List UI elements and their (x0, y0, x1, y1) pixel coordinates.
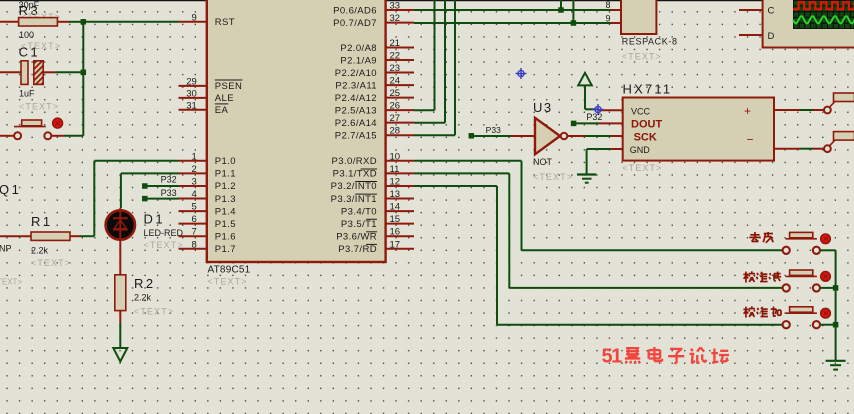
svg-text:TEXT>: TEXT> (0, 278, 22, 287)
svg-text:30: 30 (186, 88, 197, 99)
svg-text:GND: GND (630, 145, 651, 155)
svg-text:P1.5: P1.5 (215, 219, 236, 230)
svg-text:P2.2/A10: P2.2/A10 (335, 68, 377, 79)
svg-text:P32: P32 (586, 112, 602, 122)
svg-text:P33: P33 (486, 125, 501, 135)
svg-text:R2: R2 (134, 276, 156, 291)
svg-text:11: 11 (390, 164, 400, 175)
svg-text:5: 5 (192, 202, 197, 213)
svg-text:9: 9 (192, 12, 197, 23)
svg-text:R1: R1 (31, 214, 53, 229)
svg-text:17: 17 (390, 239, 401, 250)
svg-text:NP: NP (0, 244, 12, 254)
svg-text:P3.6/WR: P3.6/WR (336, 232, 377, 243)
svg-text:10: 10 (390, 151, 401, 162)
svg-text:DOUT: DOUT (631, 119, 662, 131)
svg-text:<TEXT>: <TEXT> (19, 102, 59, 112)
svg-text:P3.1/TXD: P3.1/TXD (333, 169, 377, 180)
svg-text:3: 3 (192, 176, 197, 187)
svg-text:U3: U3 (533, 100, 553, 115)
svg-text:P3.0/RXD: P3.0/RXD (332, 156, 377, 167)
svg-text:P1.3: P1.3 (215, 194, 236, 205)
svg-text:<TEXT>: <TEXT> (622, 52, 662, 62)
svg-text:100: 100 (19, 30, 34, 40)
svg-text:26: 26 (390, 101, 401, 112)
svg-text:NOT: NOT (533, 157, 553, 167)
svg-text:2.2k: 2.2k (31, 246, 49, 256)
svg-text:8: 8 (192, 239, 197, 250)
svg-text:33: 33 (390, 1, 401, 12)
svg-text:P1.4: P1.4 (215, 206, 236, 217)
svg-text:P33: P33 (161, 188, 177, 198)
svg-text:16: 16 (390, 227, 401, 238)
svg-text:P3.3/INT1: P3.3/INT1 (331, 194, 377, 205)
svg-text:D1: D1 (144, 212, 166, 227)
svg-text:<TEXT>: <TEXT> (533, 172, 573, 182)
svg-text:RST: RST (215, 17, 235, 28)
svg-text:P1.0: P1.0 (215, 156, 236, 167)
svg-text:AT89C51: AT89C51 (208, 264, 251, 275)
svg-text:P1.2: P1.2 (215, 181, 236, 192)
svg-text:2.2k: 2.2k (134, 293, 152, 303)
svg-text:4: 4 (192, 189, 197, 200)
svg-text:51: 51 (602, 346, 623, 368)
svg-text:P32: P32 (161, 175, 177, 185)
svg-text:25: 25 (390, 88, 401, 99)
svg-text:EA: EA (215, 105, 229, 116)
svg-text:C1: C1 (19, 45, 41, 60)
svg-text:9: 9 (605, 14, 610, 24)
svg-text:P0.6/AD6: P0.6/AD6 (333, 5, 377, 16)
svg-text:P2.4/A12: P2.4/A12 (335, 93, 377, 104)
svg-text:P3.7/RD: P3.7/RD (338, 244, 377, 255)
svg-text:8: 8 (605, 0, 610, 10)
svg-text:P1.7: P1.7 (215, 244, 236, 255)
svg-text:14: 14 (390, 202, 401, 213)
svg-text:ALE: ALE (215, 93, 234, 104)
svg-text:6: 6 (192, 214, 197, 225)
svg-text:P2.3/A11: P2.3/A11 (335, 80, 377, 91)
svg-text:−: − (747, 133, 754, 147)
svg-text:P3.5/T1: P3.5/T1 (341, 219, 377, 230)
svg-text:P0.7/AD7: P0.7/AD7 (333, 18, 377, 29)
svg-text:7: 7 (192, 227, 197, 238)
svg-text:PSEN: PSEN (215, 81, 242, 92)
svg-text:P2.1/A9: P2.1/A9 (340, 55, 377, 66)
svg-text:+: + (744, 104, 751, 118)
svg-text:P1.6: P1.6 (215, 232, 236, 243)
svg-text:<TEXT>: <TEXT> (208, 277, 248, 287)
svg-text:LED-RED: LED-RED (144, 228, 184, 238)
svg-text:12: 12 (390, 176, 401, 187)
svg-text:21: 21 (390, 38, 401, 49)
svg-text:2: 2 (192, 164, 197, 175)
svg-text:27: 27 (390, 113, 401, 124)
svg-text:VCC: VCC (631, 106, 651, 116)
svg-text:31: 31 (186, 100, 197, 111)
svg-text:Q1: Q1 (0, 182, 21, 197)
svg-text:32: 32 (390, 13, 401, 24)
svg-text:15: 15 (390, 214, 401, 225)
svg-text:P2.0/A8: P2.0/A8 (340, 43, 377, 54)
svg-text:29: 29 (186, 76, 197, 87)
svg-text:1: 1 (192, 151, 197, 162)
svg-text:P2.6/A14: P2.6/A14 (335, 118, 377, 129)
svg-text:D: D (768, 31, 775, 42)
svg-text:P2.7/A15: P2.7/A15 (335, 131, 377, 142)
svg-text:<TEXT>: <TEXT> (134, 307, 174, 317)
svg-text:P1.1: P1.1 (215, 169, 236, 180)
svg-text:1uF: 1uF (19, 89, 35, 99)
svg-text:RESPACK-8: RESPACK-8 (622, 37, 678, 47)
svg-text:22: 22 (390, 51, 401, 62)
svg-text:23: 23 (390, 63, 401, 74)
svg-text:HX711: HX711 (623, 82, 673, 97)
svg-text:24: 24 (390, 76, 401, 87)
svg-text:<TEXT>: <TEXT> (31, 258, 71, 268)
svg-text:<TEXT>: <TEXT> (622, 163, 662, 173)
svg-text:SCK: SCK (634, 132, 657, 144)
svg-text:13: 13 (390, 189, 401, 200)
svg-text:P3.4/T0: P3.4/T0 (341, 206, 377, 217)
svg-text:C: C (768, 6, 775, 17)
svg-text:P2.5/A13: P2.5/A13 (335, 105, 377, 116)
svg-text:P3.2/INT0: P3.2/INT0 (331, 181, 377, 192)
svg-text:<TEXT>: <TEXT> (144, 240, 184, 250)
svg-text:28: 28 (390, 126, 401, 137)
